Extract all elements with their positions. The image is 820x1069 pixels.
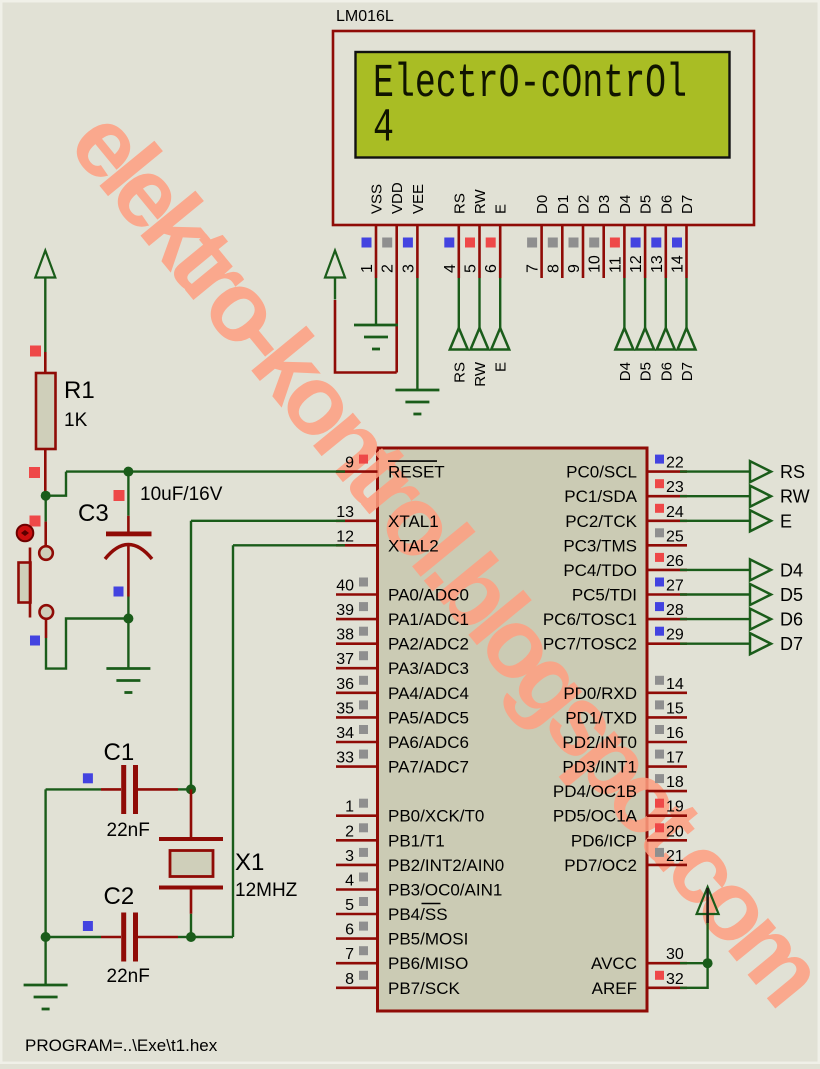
- chip pin 33 stub: [336, 765, 378, 768]
- capacitor C1 plates: [121, 765, 126, 814]
- node junction R1/button/RESET: [41, 491, 51, 501]
- chip pin 30 stub: [647, 962, 687, 965]
- wire XTAL2 to chip: [233, 544, 345, 546]
- svg-text:PA4/ADC4: PA4/ADC4: [388, 684, 469, 703]
- wire XTAL1 vertical: [190, 521, 192, 790]
- svg-text:PD2/INT0: PD2/INT0: [562, 733, 637, 752]
- svg-text:10: 10: [587, 255, 604, 273]
- chip pin 32 state square: [655, 971, 664, 980]
- svg-text:30: 30: [666, 946, 684, 963]
- wire LCD pin 12 to terminal: [644, 278, 646, 328]
- wire junction to button: [45, 496, 47, 522]
- X1 top pin: [190, 789, 193, 837]
- svg-text:37: 37: [336, 651, 354, 668]
- svg-text:PD4/OC1B: PD4/OC1B: [553, 782, 637, 801]
- svg-text:PD7/OC2: PD7/OC2: [564, 856, 637, 875]
- C2 right pin: [138, 936, 178, 939]
- svg-text:R1: R1: [64, 377, 95, 404]
- chip pin 16 state square: [655, 725, 664, 734]
- svg-text:39: 39: [336, 602, 354, 619]
- svg-text:PA1/ADC1: PA1/ADC1: [388, 610, 469, 629]
- button plunger: [19, 563, 31, 603]
- chip pin 1 stub: [336, 814, 378, 817]
- chip pin 16 stub: [647, 741, 687, 744]
- svg-text:15: 15: [666, 700, 684, 717]
- state square at C3 bottom: [114, 587, 124, 597]
- resistor R1 body: [36, 373, 56, 449]
- svg-text:36: 36: [336, 676, 354, 693]
- svg-text:12: 12: [628, 255, 645, 273]
- junction C3 bottom: [123, 614, 133, 624]
- junction AVCC/AREF: [703, 958, 713, 968]
- chip pin 29 stub: [647, 642, 687, 645]
- chip pin 35 state square: [359, 700, 368, 709]
- svg-text:D7: D7: [679, 362, 696, 381]
- svg-text:14: 14: [666, 676, 684, 693]
- svg-text:D5: D5: [638, 362, 655, 381]
- chip pin 23 stub: [647, 495, 687, 498]
- svg-text:RESET: RESET: [388, 463, 445, 482]
- svg-text:4: 4: [373, 103, 394, 156]
- svg-text:D7: D7: [780, 634, 803, 654]
- svg-text:C2: C2: [104, 883, 135, 910]
- wire LCD pin 5 to terminal: [478, 278, 480, 328]
- chip pin 18 stub: [647, 790, 687, 793]
- chip pin 1 state square: [359, 799, 368, 808]
- wire XTAL1 to chip: [191, 520, 345, 522]
- chip pin 26 state square: [655, 553, 664, 562]
- chip pin 21 state square: [655, 848, 664, 857]
- svg-text:PB1/T1: PB1/T1: [388, 831, 445, 850]
- chip pin 38 state square: [359, 627, 368, 636]
- svg-text:9: 9: [566, 264, 583, 273]
- svg-text:29: 29: [666, 627, 684, 644]
- terminal triangle D5 (chip side): [750, 584, 771, 605]
- svg-text:D4: D4: [617, 362, 634, 381]
- svg-text:35: 35: [336, 700, 354, 717]
- LCD pin 8 state square: [548, 238, 558, 248]
- wire C1-C2 left rail: [44, 789, 46, 984]
- svg-text:23: 23: [666, 479, 684, 496]
- chip pin 38 stub: [336, 642, 378, 645]
- svg-text:2: 2: [380, 264, 397, 273]
- chip pin 14 stub: [647, 691, 687, 694]
- state square at C1 left: [83, 773, 93, 783]
- wire LCD pin1 to ground: [375, 278, 377, 324]
- wire RESET net to C3: [127, 472, 129, 516]
- wire C1 left: [46, 788, 101, 790]
- chip pin 39 state square: [359, 602, 368, 611]
- svg-text:34: 34: [336, 725, 354, 742]
- button contact bar: [29, 548, 32, 618]
- svg-text:20: 20: [666, 823, 684, 840]
- wire junction to RESET net: [46, 472, 66, 496]
- svg-text:RW: RW: [780, 487, 810, 507]
- chip pin 7 stub: [336, 962, 378, 965]
- wire XTAL2 vertical: [232, 545, 234, 937]
- svg-text:PB2/INT2/AIN0: PB2/INT2/AIN0: [388, 856, 504, 875]
- chip pin 35 stub: [336, 716, 378, 719]
- chip pin 40 stub: [336, 593, 378, 596]
- ground at LCD VSS: [354, 325, 398, 349]
- svg-text:LM016L: LM016L: [336, 8, 394, 25]
- svg-text:22nF: 22nF: [107, 966, 150, 987]
- crystal X1 bottom plate: [159, 886, 223, 890]
- chip pin 5 state square: [359, 897, 368, 906]
- SS overline: [422, 903, 441, 905]
- svg-text:PA7/ADC7: PA7/ADC7: [388, 758, 469, 777]
- chip pin 15 state square: [655, 700, 664, 709]
- svg-text:PA0/ADC0: PA0/ADC0: [388, 586, 469, 605]
- wire button to C3 bottom: [46, 619, 128, 669]
- svg-text:RW: RW: [472, 188, 489, 214]
- svg-text:D2: D2: [576, 195, 593, 214]
- svg-text:12MHZ: 12MHZ: [235, 880, 298, 901]
- LCD pin 11 stub: [623, 225, 626, 278]
- svg-text:ElectrO-cOntrOl: ElectrO-cOntrOl: [373, 58, 687, 111]
- svg-text:38: 38: [336, 627, 354, 644]
- svg-text:PD3/INT1: PD3/INT1: [562, 758, 637, 777]
- svg-text:RS: RS: [451, 362, 468, 383]
- svg-text:PC3/TMS: PC3/TMS: [563, 536, 637, 555]
- svg-text:VSS: VSS: [369, 184, 386, 214]
- svg-text:1K: 1K: [64, 410, 88, 431]
- capacitor C3 bottom plate (curved): [105, 545, 152, 560]
- state square at C3 top: [114, 490, 125, 501]
- svg-text:16: 16: [666, 725, 684, 742]
- chip pin 3 state square: [359, 848, 368, 857]
- chip pin 6 state square: [359, 922, 368, 931]
- chip pin 8 stub: [336, 986, 378, 989]
- chip pin 15 stub: [647, 716, 687, 719]
- chip pin 5 stub: [336, 913, 378, 916]
- svg-text:12: 12: [336, 528, 354, 545]
- junction C1/X1/XTAL1: [186, 784, 196, 794]
- wire LCD pin 11 to terminal: [623, 278, 625, 328]
- crystal X1 body: [170, 851, 213, 877]
- svg-text:PB5/MOSI: PB5/MOSI: [388, 930, 468, 949]
- wire PC5 to terminal D5: [680, 593, 750, 595]
- svg-text:6: 6: [483, 264, 500, 273]
- terminal triangle D4 (chip side): [750, 559, 771, 580]
- chip pin 18 state square: [655, 774, 664, 783]
- LCD pin 14 stub: [685, 225, 688, 278]
- terminal triangle D7 (chip side): [750, 633, 771, 654]
- wire C2 left: [46, 936, 101, 938]
- chip pin 22 state square: [655, 455, 664, 464]
- svg-text:AVCC: AVCC: [591, 954, 637, 973]
- chip pin 14 state square: [655, 676, 664, 685]
- chip pin 12 stub: [336, 544, 378, 547]
- svg-text:32: 32: [666, 971, 684, 988]
- svg-text:33: 33: [336, 750, 354, 767]
- terminal triangle RW (chip side): [750, 486, 771, 507]
- capacitor C3 top plate: [106, 532, 152, 537]
- svg-text:PB4/SS: PB4/SS: [388, 905, 448, 924]
- svg-text:D5: D5: [638, 195, 655, 214]
- svg-text:PD0/RXD: PD0/RXD: [563, 684, 637, 703]
- wire LCD pin 4 to terminal: [458, 278, 460, 328]
- button bottom terminal circle: [40, 605, 54, 619]
- C1 right pin: [138, 788, 178, 791]
- LCD pin 6 state square: [486, 238, 496, 248]
- svg-text:13: 13: [649, 255, 666, 273]
- terminal triangle E (chip side): [750, 510, 771, 531]
- LCD LM016L body: [333, 31, 754, 225]
- svg-text:PC5/TDI: PC5/TDI: [572, 586, 637, 605]
- chip pin 26 stub: [647, 569, 687, 572]
- state square at button bottom: [30, 636, 40, 646]
- C2 left pin: [101, 936, 121, 939]
- LCD pin 9 state square: [569, 238, 579, 248]
- wire AVCC: [680, 962, 708, 964]
- terminal triangle RS (chip side): [750, 461, 771, 482]
- LCD pin 3 state square: [403, 238, 413, 248]
- wire PC2 to terminal E: [680, 520, 750, 522]
- svg-text:PA2/ADC2: PA2/ADC2: [388, 635, 469, 654]
- svg-text:40: 40: [336, 578, 354, 595]
- chip pin 6 stub: [336, 937, 378, 940]
- wire PC1 to terminal RW: [680, 495, 750, 497]
- svg-text:D3: D3: [596, 195, 613, 214]
- wire RESET to chip: [66, 470, 345, 472]
- chip pin 2 state square: [359, 823, 368, 832]
- svg-text:6: 6: [345, 922, 354, 939]
- chip pin 9 stub: [336, 470, 378, 473]
- svg-text:22nF: 22nF: [107, 820, 150, 841]
- wire LCD pin 6 to terminal: [499, 278, 501, 328]
- C3 bottom pin: [127, 546, 130, 597]
- LCD pin 5 state square: [465, 238, 475, 248]
- chip pin 27 state square: [655, 578, 664, 587]
- svg-text:3: 3: [345, 848, 354, 865]
- chip pin 29 state square: [655, 627, 664, 636]
- LCD pin 10 state square: [589, 238, 599, 248]
- LCD pin 12 state square: [631, 238, 641, 248]
- chip pin 24 stub: [647, 519, 687, 522]
- svg-text:18: 18: [666, 774, 684, 791]
- svg-text:1: 1: [345, 799, 354, 816]
- svg-text:VDD: VDD: [389, 182, 406, 214]
- chip pin 8 state square: [359, 971, 368, 980]
- LCD pin 12 stub: [644, 225, 647, 278]
- power +5V at R1: [35, 251, 55, 353]
- terminal triangle D5 (LCD side): [636, 328, 654, 350]
- svg-text:E: E: [493, 362, 510, 372]
- chip pin 7 state square: [359, 946, 368, 955]
- red stub below R1: [44, 449, 47, 496]
- svg-text:17: 17: [666, 750, 684, 767]
- svg-text:C1: C1: [104, 739, 135, 766]
- wire C2 junction to XTAL2 vertical: [191, 936, 233, 938]
- ground at LCD VEE: [395, 390, 439, 414]
- state square above R1: [30, 346, 41, 357]
- wire AREF: [680, 963, 708, 988]
- svg-text:PD5/OC1A: PD5/OC1A: [553, 807, 638, 826]
- svg-text:13: 13: [336, 504, 354, 521]
- wire C2 right: [178, 936, 191, 938]
- chip pin 25 state square: [655, 528, 664, 537]
- chip pin 4 state square: [359, 873, 368, 882]
- svg-text:14: 14: [670, 255, 687, 273]
- LCD pin 8 stub: [561, 225, 564, 278]
- chip pin 27 stub: [647, 593, 687, 596]
- LCD pin 1 stub: [375, 225, 378, 278]
- LCD pin 9 stub: [582, 225, 585, 278]
- svg-text:21: 21: [666, 848, 684, 865]
- chip pin 25 stub: [647, 544, 687, 547]
- svg-text:9: 9: [345, 455, 354, 472]
- wire LCD pin3 to ground: [416, 278, 418, 389]
- chip pin 24 state square: [655, 504, 664, 513]
- svg-text:X1: X1: [235, 849, 264, 876]
- wire C3 bottom to junction: [127, 597, 129, 619]
- svg-text:7: 7: [525, 264, 542, 273]
- wire junction to ground: [127, 619, 129, 669]
- LCD pin 3 stub: [416, 225, 419, 278]
- svg-text:5: 5: [463, 264, 480, 273]
- svg-text:26: 26: [666, 553, 684, 570]
- svg-text:E: E: [493, 204, 510, 214]
- chip pin 3 stub: [336, 864, 378, 867]
- svg-text:RS: RS: [780, 462, 805, 482]
- svg-text:25: 25: [666, 528, 684, 545]
- svg-text:PB7/SCK: PB7/SCK: [388, 979, 460, 998]
- state square below R1: [29, 467, 40, 478]
- chip pin 28 stub: [647, 618, 687, 621]
- C1 left pin: [101, 788, 121, 791]
- chip pin 23 state square: [655, 479, 664, 488]
- svg-text:19: 19: [666, 799, 684, 816]
- chip pin 22 stub: [647, 470, 687, 473]
- chip pin 36 state square: [359, 676, 368, 685]
- ground below C2 rail: [24, 985, 68, 1009]
- svg-text:8: 8: [345, 971, 354, 988]
- button top terminal circle: [39, 546, 53, 560]
- LCD pin 11 state square: [610, 238, 620, 248]
- chip pin 33 state square: [359, 750, 368, 759]
- svg-text:C3: C3: [78, 500, 109, 527]
- RESET overline: [388, 460, 437, 462]
- chip pin 9 state square: [359, 455, 368, 464]
- button bottom pin: [45, 619, 48, 638]
- svg-text:D4: D4: [780, 560, 803, 580]
- svg-text:8: 8: [545, 264, 562, 273]
- svg-text:VEE: VEE: [410, 184, 427, 214]
- svg-text:27: 27: [666, 578, 684, 595]
- svg-text:PA5/ADC5: PA5/ADC5: [388, 708, 469, 727]
- LCD screen: [356, 52, 730, 158]
- LCD pin 14 state square: [672, 238, 682, 248]
- wire PC4 to terminal D4: [680, 569, 750, 571]
- svg-text:7: 7: [345, 946, 354, 963]
- LCD pin 1 state square: [362, 238, 372, 248]
- junction C3 top: [123, 467, 133, 477]
- svg-text:PC0/SCL: PC0/SCL: [566, 463, 637, 482]
- svg-text:XTAL2: XTAL2: [388, 536, 439, 555]
- svg-text:4: 4: [345, 873, 354, 890]
- svg-text:PC2/TCK: PC2/TCK: [565, 512, 637, 531]
- svg-text:PC6/TOSC1: PC6/TOSC1: [543, 610, 637, 629]
- svg-text:PB6/MISO: PB6/MISO: [388, 954, 468, 973]
- svg-text:D6: D6: [658, 362, 675, 381]
- chip pin 34 stub: [336, 741, 378, 744]
- chip pin 32 stub: [647, 986, 687, 989]
- LCD pin 13 state square: [651, 238, 661, 248]
- svg-text:RS: RS: [451, 193, 468, 214]
- svg-text:XTAL1: XTAL1: [388, 512, 439, 531]
- chip pin 28 state square: [655, 602, 664, 611]
- C3 top pin: [127, 516, 130, 533]
- wire X1 bottom: [190, 914, 192, 937]
- svg-text:PROGRAM=..\Exe\t1.hex: PROGRAM=..\Exe\t1.hex: [25, 1036, 218, 1055]
- wire LCD pin 13 to terminal: [665, 278, 667, 328]
- wire LCD pin 14 to terminal: [685, 278, 687, 328]
- svg-text:E: E: [780, 511, 792, 531]
- svg-text:D7: D7: [679, 195, 696, 214]
- chip pin 4 stub: [336, 888, 378, 891]
- terminal triangle RW (LCD side): [471, 328, 489, 350]
- chip pin 17 state square: [655, 750, 664, 759]
- LCD pin 10 stub: [602, 225, 605, 278]
- terminal triangle D4 (LCD side): [615, 328, 633, 350]
- chip pin 40 state square: [359, 578, 368, 587]
- wire PC7 to terminal D7: [680, 643, 750, 645]
- wire PC6 to terminal D6: [680, 618, 750, 620]
- chip pin 19 state square: [655, 799, 664, 808]
- chip pin 2 stub: [336, 839, 378, 842]
- svg-text:28: 28: [666, 602, 684, 619]
- chip pin 19 stub: [647, 814, 687, 817]
- svg-text:PB3/OC0/AIN1: PB3/OC0/AIN1: [388, 881, 502, 900]
- wire C1 right: [178, 788, 191, 790]
- svg-text:5: 5: [345, 897, 354, 914]
- svg-text:11: 11: [607, 256, 624, 273]
- svg-text:PD6/ICP: PD6/ICP: [571, 831, 637, 850]
- button toggle indicator: [17, 525, 34, 542]
- svg-text:D6: D6: [658, 195, 675, 214]
- wire to power arrow: [706, 914, 708, 963]
- svg-text:RW: RW: [472, 361, 489, 387]
- chip pin 37 stub: [336, 667, 378, 670]
- terminal triangle E (LCD side): [491, 328, 509, 350]
- svg-text:10uF/16V: 10uF/16V: [140, 484, 223, 505]
- wire PC0 to terminal RS: [680, 470, 750, 472]
- junction C2 left: [41, 932, 51, 942]
- chip U1 body: [378, 448, 648, 1011]
- LCD pin 4 state square: [444, 238, 454, 248]
- red stub above R1: [44, 352, 47, 373]
- svg-text:2: 2: [345, 823, 354, 840]
- X1 bottom pin: [190, 890, 193, 914]
- LCD pin 2 state square: [382, 238, 392, 248]
- svg-text:4: 4: [442, 264, 459, 273]
- svg-text:PA6/ADC6: PA6/ADC6: [388, 733, 469, 752]
- chip pin 34 state square: [359, 725, 368, 734]
- chip pin 21 stub: [647, 864, 687, 867]
- chip pin 17 stub: [647, 765, 687, 768]
- capacitor C2 plates: [121, 913, 126, 962]
- chip pin 37 state square: [359, 651, 368, 660]
- chip pin 13 stub: [336, 519, 378, 522]
- power arrow at AVCC: [697, 887, 719, 923]
- svg-text:24: 24: [666, 504, 684, 521]
- svg-text:D0: D0: [534, 195, 551, 214]
- LCD pin 7 stub: [540, 225, 543, 278]
- chip pin 20 state square: [655, 823, 664, 832]
- button top pin: [44, 522, 47, 546]
- LCD pin 4 stub: [457, 225, 460, 278]
